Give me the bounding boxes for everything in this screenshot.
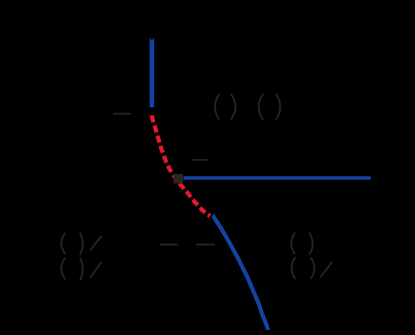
label: top parentheses pair 2 (259, 95, 281, 119)
node label dash lower pair right (196, 244, 215, 246)
node label dash lower pair left (160, 244, 178, 246)
wire: blue lower-right descending curve (212, 216, 268, 332)
node A: small dark notch at top of blue segment (150, 38, 153, 40)
wire: blue vertical branch segment (upper asymptotic part of curve) (150, 38, 155, 107)
wire: red dashed transition curve through center point (152, 115, 210, 216)
label: bottom-right row 1 "( )" (291, 233, 313, 254)
node B: dark square marker at curve center (173, 174, 183, 184)
node label dash mid (above square) (191, 159, 209, 161)
label: top parentheses pair 1 (215, 95, 236, 119)
node label dash upper-left (113, 113, 131, 115)
label: bottom-right row 2 "( ) /" (292, 258, 332, 279)
wire: blue horizontal branch segment (right asymptotic part) (184, 176, 371, 180)
label: bottom-left row 1 "( ) /" (61, 233, 101, 254)
label: bottom-left row 2 "( ) /" (61, 258, 101, 280)
